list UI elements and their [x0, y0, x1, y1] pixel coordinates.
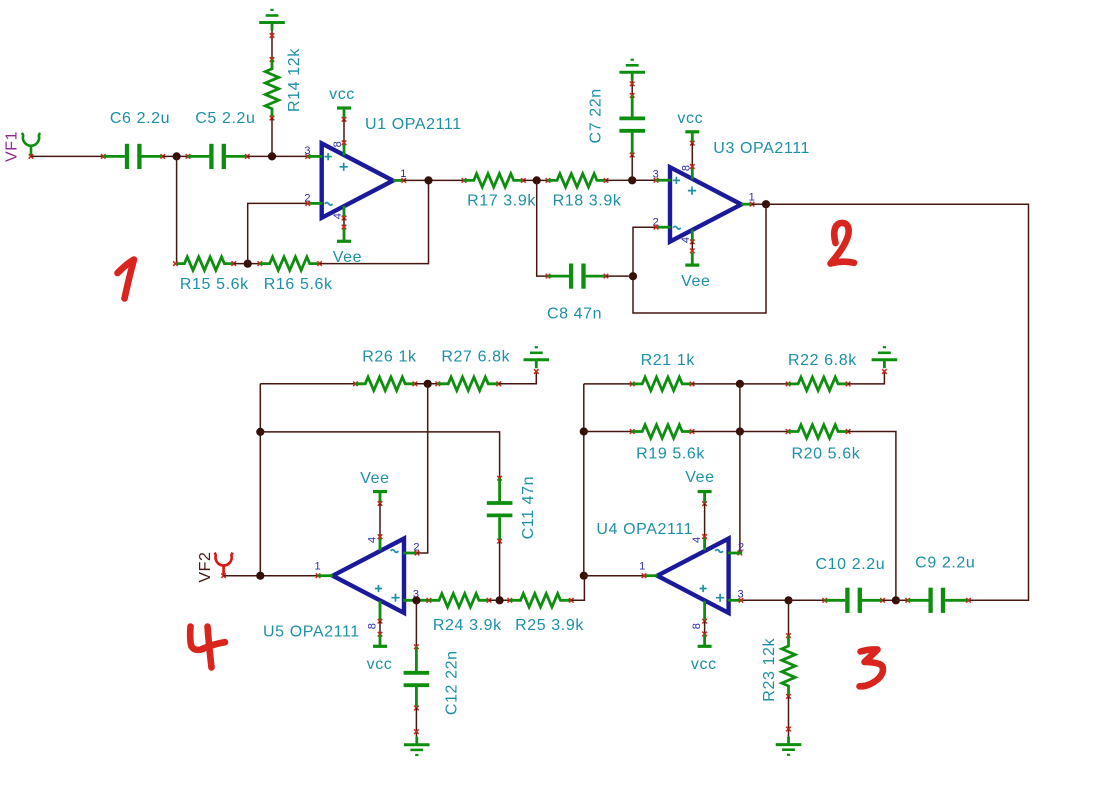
resistor R26 1k	[356, 349, 418, 391]
svg-text:3: 3	[653, 169, 659, 181]
node D (U1 output)	[424, 176, 432, 184]
svg-text:C7 22n: C7 22n	[588, 88, 605, 143]
node P (R19/R20 junction)	[736, 427, 744, 435]
resistor R27 6.8k	[438, 349, 511, 391]
svg-text:Vee: Vee	[681, 273, 710, 290]
ground GND5 (right of R22)	[872, 347, 898, 368]
handwritten stage number 2	[831, 223, 855, 264]
wire R21 row left segment	[584, 382, 635, 387]
svg-text:R20 5.6k: R20 5.6k	[791, 446, 860, 463]
svg-text:2: 2	[738, 542, 744, 554]
capacitor C5 2.2u	[188, 110, 256, 169]
svg-text:R17 3.9k: R17 3.9k	[467, 193, 536, 210]
wire U1 pin 1 to R17	[402, 178, 467, 183]
Vee symbol above U4	[685, 469, 714, 539]
wire left vertical (R26 row to VF2 row)	[259, 384, 261, 576]
node L (U5 pin3/C12 junction)	[412, 596, 420, 604]
node K (VF2/left vertical junction)	[256, 572, 264, 580]
wire node R down to R23	[786, 600, 791, 638]
wire U5 pin 2 up to node I	[415, 384, 428, 556]
Vee symbol above U5	[360, 470, 389, 539]
svg-text:vcc: vcc	[677, 110, 703, 127]
wire R23 to GND6	[786, 696, 791, 736]
wire R26 to R27	[415, 382, 440, 387]
wire node L down to C12	[414, 600, 419, 649]
op-amp U3 OPA2111	[653, 140, 810, 243]
svg-text:R16 5.6k: R16 5.6k	[264, 276, 333, 293]
wire R18 to U3 pin 3	[606, 178, 658, 183]
node B (R14/C5/U1+ junction)	[268, 152, 276, 160]
node E (R17/R18/C8 junction)	[533, 176, 541, 184]
wire C12 to GND4	[414, 708, 419, 737]
connector VF1	[4, 131, 41, 162]
wire node N/P down to U4 pin 2	[738, 384, 743, 555]
svg-text:VF1: VF1	[4, 131, 21, 162]
svg-text:C6 2.2u: C6 2.2u	[110, 110, 170, 127]
svg-text:1: 1	[639, 561, 645, 573]
ground GND4 (below C12)	[404, 737, 430, 755]
wire VF2 to U5 pin 1	[224, 573, 321, 578]
svg-text:R21 1k: R21 1k	[641, 352, 696, 369]
svg-text:8: 8	[691, 623, 703, 629]
wire node A down to R15	[173, 156, 178, 266]
svg-text:R19 5.6k: R19 5.6k	[636, 446, 705, 463]
resistor R14 12k	[265, 48, 303, 120]
svg-text:U1 OPA2111: U1 OPA2111	[365, 116, 462, 133]
svg-text:C9 2.2u: C9 2.2u	[915, 555, 975, 572]
svg-text:R27 6.8k: R27 6.8k	[441, 349, 510, 366]
wire node E down to C8	[537, 180, 551, 278]
vcc symbol above U3	[677, 110, 703, 169]
node Q (U4 output)	[580, 572, 588, 580]
capacitor C12 22n	[404, 647, 461, 715]
svg-text:R22 6.8k: R22 6.8k	[788, 352, 857, 369]
resistor R25 3.9k	[510, 594, 585, 634]
ground GND1 (top of R14)	[259, 10, 285, 31]
capacitor C6 2.2u	[103, 110, 170, 169]
resistor R19 5.6k	[632, 425, 705, 463]
vcc symbol above U1	[329, 86, 355, 145]
node C (R15/R16 junction)	[244, 260, 252, 268]
svg-text:U4 OPA2111: U4 OPA2111	[596, 521, 693, 538]
node S (C10/C9/R20 junction)	[892, 596, 900, 604]
node A (C6/C5 junction)	[173, 152, 181, 160]
svg-text:4: 4	[366, 537, 378, 543]
capacitor C9 2.2u	[908, 555, 976, 613]
svg-text:3: 3	[304, 145, 310, 157]
resistor R16 5.6k	[260, 257, 333, 293]
wire VF1 to C6	[31, 154, 106, 159]
wire C10 to node S	[883, 599, 896, 601]
wire R25 up to U4 output node	[571, 576, 584, 601]
wire node R to C10	[789, 598, 828, 603]
resistor R23 12k	[761, 636, 795, 702]
Vee symbol below U1	[333, 216, 362, 266]
node R (U4 pin3 / R23 / C10 junction)	[784, 596, 792, 604]
wire left vertical of stage 3	[583, 384, 585, 576]
wire node H up to U3 pin 2	[633, 225, 658, 276]
wire GND1 to R14	[270, 31, 275, 62]
connector VF2	[197, 551, 233, 582]
wire R20 down to C10/C9 node	[848, 432, 896, 601]
capacitor C10 2.2u	[816, 556, 886, 613]
svg-text:R25 3.9k: R25 3.9k	[515, 617, 584, 634]
wire GND2 to C7	[630, 81, 635, 98]
wire C6 to C5	[163, 154, 191, 159]
svg-text:R26 1k: R26 1k	[362, 349, 417, 366]
svg-text:R18 3.9k: R18 3.9k	[553, 193, 622, 210]
wire R15 to R16	[234, 261, 262, 266]
resistor R22 6.8k	[788, 352, 857, 391]
ground GND6 (below R23)	[776, 736, 802, 754]
wire C7 to node F	[631, 155, 633, 180]
wire U4 pin 1 to node Q	[584, 573, 647, 578]
wire node C up to U1 pin 2	[248, 201, 310, 264]
wire R17 to R18	[523, 178, 550, 183]
resistor R17 3.9k	[464, 174, 536, 210]
svg-text:R24 3.9k: R24 3.9k	[433, 617, 502, 634]
svg-text:Vee: Vee	[360, 470, 389, 487]
svg-text:C10 2.2u: C10 2.2u	[816, 556, 886, 573]
svg-text:R23 12k: R23 12k	[761, 638, 778, 702]
resistor R24 3.9k	[427, 594, 503, 634]
svg-text:C8 47n: C8 47n	[547, 306, 602, 323]
wire C8 to node H	[606, 275, 633, 277]
capacitor C8 47n	[547, 264, 608, 323]
node O (left vertical / R19 row)	[580, 427, 588, 435]
node I (R26/R27 junction)	[424, 380, 432, 388]
wire R27 to GND3	[499, 369, 539, 384]
op-amp U5 OPA2111 (mirrored)	[263, 537, 429, 641]
svg-text:U5 OPA2111: U5 OPA2111	[263, 623, 360, 640]
svg-text:vcc: vcc	[329, 86, 355, 103]
ground GND3 (right of R27)	[524, 347, 550, 368]
wire R22 to GND5	[848, 369, 887, 384]
wire R14 to node IN1	[271, 118, 273, 156]
wire U3 output to C9 (right side run)	[766, 204, 1029, 600]
wire C5 to U1 pin 3	[247, 154, 310, 159]
svg-text:VF2: VF2	[197, 551, 214, 582]
node N (R21/R22 junction)	[736, 380, 744, 388]
wire node S to C9	[896, 598, 910, 603]
svg-text:C11 47n: C11 47n	[520, 476, 537, 540]
node F (C7/R18/U3+ junction)	[628, 176, 636, 184]
svg-text:C5 2.2u: C5 2.2u	[195, 110, 255, 127]
resistor R21 1k	[632, 352, 695, 391]
wire R16 to U1 output node	[320, 180, 429, 263]
svg-text:Vee: Vee	[685, 469, 714, 486]
handwritten stage number 1	[118, 260, 135, 299]
vcc symbol below U5	[367, 619, 393, 673]
wire R19 row left segment	[584, 429, 635, 434]
wire U3 feedback loop bottom	[633, 204, 766, 313]
op-amp U4 OPA2111 (mirrored)	[596, 521, 744, 629]
wire R19 to R20	[692, 429, 790, 434]
vcc symbol below U4	[691, 619, 717, 673]
svg-text:vcc: vcc	[367, 656, 393, 673]
wire C11 to R24/R25 row	[499, 541, 501, 600]
svg-text:R15 5.6k: R15 5.6k	[180, 276, 249, 293]
wire R26 row left segment	[260, 382, 358, 387]
resistor R20 5.6k	[788, 425, 861, 463]
wire U4 pin 3 to R23 node	[739, 598, 789, 603]
wire R24 to R25	[489, 598, 512, 603]
wire U3 pin 1 to output node	[750, 202, 766, 207]
Vee symbol below U3	[681, 240, 710, 290]
ground GND2 (top of C7)	[619, 60, 645, 81]
capacitor C7 22n	[588, 88, 646, 157]
node G (U3 output)	[762, 200, 770, 208]
capacitor C11 47n	[487, 476, 537, 544]
handwritten stage number 3	[860, 649, 883, 686]
svg-text:U3 OPA2111: U3 OPA2111	[713, 140, 810, 157]
svg-text:vcc: vcc	[691, 656, 717, 673]
node M (R24/R25/C11 junction)	[496, 596, 504, 604]
svg-text:1: 1	[315, 561, 321, 573]
node H (C8/U3- junction)	[629, 272, 637, 280]
resistor R15 5.6k	[177, 257, 250, 293]
op-amp U1 OPA2111	[304, 116, 461, 219]
svg-text:R14 12k: R14 12k	[286, 48, 303, 112]
wire R21 to R22	[692, 382, 790, 387]
resistor R18 3.9k	[548, 174, 622, 210]
svg-text:8: 8	[366, 623, 378, 629]
wire second row to C11	[260, 432, 502, 481]
svg-text:C12 22n: C12 22n	[444, 650, 461, 715]
handwritten stage number 4	[190, 627, 225, 668]
node J (left vertical / second row)	[256, 428, 264, 436]
